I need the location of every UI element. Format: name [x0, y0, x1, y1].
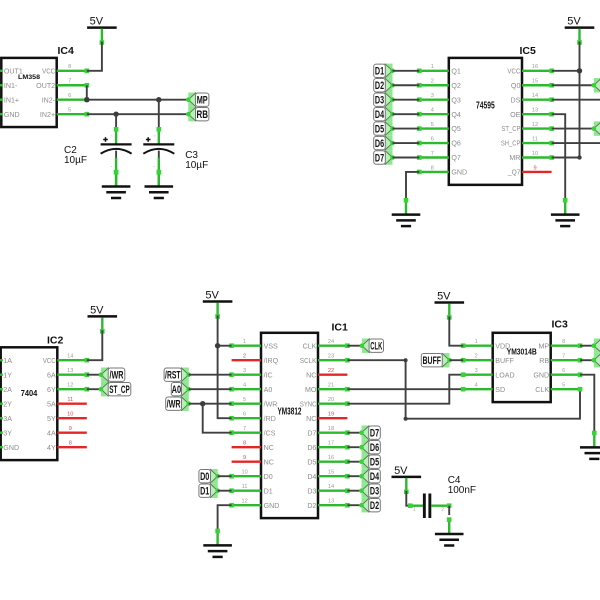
net label BUFF (BUFF near IC3) [421, 353, 452, 367]
svg-text:ST_CP: ST_CP [109, 384, 130, 396]
svg-text:D2: D2 [307, 502, 316, 510]
svg-text:5: 5 [68, 107, 71, 113]
svg-text:CLK: CLK [303, 342, 317, 350]
svg-text:13: 13 [328, 499, 334, 505]
svg-text:D6: D6 [375, 138, 384, 150]
svg-text:OUT1: OUT1 [4, 67, 23, 75]
svg-text:NC: NC [264, 458, 274, 466]
wire IC5 DS pin14 off right edge [552, 99, 600, 101]
svg-text:6: 6 [562, 368, 565, 374]
svg-text:2: 2 [243, 354, 246, 360]
wire C4 pin2 to ground [448, 506, 450, 515]
svg-text:-: - [111, 163, 113, 169]
op-amp IC4 LM358 [0, 45, 89, 127]
svg-text:7: 7 [68, 79, 71, 85]
svg-text:MR: MR [509, 154, 520, 162]
svg-text:MP: MP [197, 95, 208, 107]
wire 5V to IC3 VDD pin1 [449, 316, 463, 345]
svg-text:D2: D2 [370, 500, 379, 512]
wire D0 label to IC1 pin10 [218, 475, 232, 477]
net label D7 (D7 near IC5) [374, 150, 395, 164]
svg-text:18: 18 [328, 426, 334, 432]
ground symbol (IC5 OE) [551, 198, 580, 226]
svg-text:13: 13 [532, 107, 538, 113]
svg-text:5V: 5V [90, 16, 104, 28]
svg-text:D6: D6 [370, 442, 379, 454]
svg-text:IC1: IC1 [332, 322, 349, 334]
svg-text:OUT2: OUT2 [36, 82, 55, 90]
svg-text:Q6: Q6 [451, 140, 461, 148]
svg-text:11: 11 [532, 136, 538, 142]
net label RB (RB near IC4) [186, 107, 209, 121]
net label (cut label at IC3 RB) [592, 353, 600, 367]
svg-text:Q1: Q1 [451, 67, 461, 75]
wire IC2 6A pin13 to /WR label [87, 374, 101, 376]
wire IC1 D2 pin13 to label [347, 504, 361, 506]
capacitor C3 10uF electrolytic [143, 100, 174, 187]
svg-text:IC4: IC4 [58, 45, 75, 57]
power +5V supply (C4) [392, 465, 422, 494]
net label D7 (D7 near IC1) [359, 426, 380, 440]
svg-text:1Y: 1Y [3, 371, 12, 379]
svg-text:Q0: Q0 [511, 82, 521, 90]
svg-text:1: 1 [243, 339, 246, 345]
wire D6 label to IC5 pin 6 [393, 142, 420, 144]
svg-text:IN2-: IN2- [42, 96, 56, 104]
wire IC3 RB pin7 to edge label [580, 359, 594, 361]
net label D1 (D1 near IC5) [374, 64, 395, 78]
svg-text:5V: 5V [205, 290, 219, 302]
svg-text:D5: D5 [370, 457, 379, 469]
ground symbol (IC5 GND) [392, 198, 421, 226]
svg-text:7: 7 [431, 151, 434, 157]
svg-text:4: 4 [431, 107, 434, 113]
svg-text:5V: 5V [90, 305, 104, 317]
svg-text:16: 16 [328, 455, 334, 461]
svg-text:4: 4 [243, 383, 246, 389]
svg-text:MP: MP [538, 342, 549, 350]
wire IC1 D6 pin17 to label [347, 446, 361, 448]
net label D3 (D3 near IC5) [374, 93, 395, 107]
svg-text:5Y: 5Y [47, 415, 56, 423]
svg-text:IN2+: IN2+ [40, 111, 55, 119]
svg-text:/IRQ: /IRQ [264, 357, 279, 365]
svg-text:8: 8 [68, 64, 71, 70]
svg-text:10: 10 [241, 470, 247, 476]
net label D6 (D6 near IC5) [374, 136, 395, 150]
svg-text:14: 14 [532, 93, 538, 99]
svg-text:GND: GND [4, 111, 20, 119]
svg-text:9: 9 [533, 165, 536, 171]
wire IC1 D3 pin14 to label [347, 490, 361, 492]
svg-text:D4: D4 [375, 109, 385, 121]
svg-text:SCLK: SCLK [300, 357, 317, 365]
svg-text:GND: GND [451, 169, 467, 177]
junction /WR branch [200, 401, 205, 406]
shift register IC5 74595 [417, 45, 554, 185]
power +5V supply (IC3 VDD) [435, 291, 465, 320]
svg-text:D3: D3 [370, 486, 379, 498]
svg-text:5A: 5A [47, 400, 56, 408]
svg-text:2: 2 [475, 354, 478, 360]
svg-text:12: 12 [241, 499, 247, 505]
node SCLK corner [404, 417, 408, 421]
wire IC1 VSS pin1 to 5V rail [218, 345, 232, 347]
svg-text:/WR: /WR [264, 400, 278, 408]
junction IC1 VSS on 5V rail [215, 343, 220, 348]
svg-text:5V: 5V [437, 291, 451, 303]
wire BUFF label to IC3 pin2 [450, 359, 464, 361]
power +5V supply (IC4 VCC) [87, 16, 117, 45]
ground symbol (C2) [102, 170, 131, 198]
svg-text:VSS: VSS [264, 342, 278, 350]
net label A0 (A0 near IC1) [171, 382, 191, 396]
ground symbol (C4 GND) [435, 517, 464, 545]
svg-text:19: 19 [328, 412, 334, 418]
svg-text:/WR: /WR [167, 399, 181, 411]
net label D5 (D5 near IC1) [359, 455, 380, 469]
svg-text:D6: D6 [307, 444, 316, 452]
ground symbol (C3) [145, 170, 174, 198]
svg-text:~: ~ [153, 134, 156, 139]
svg-text:IN1+: IN1+ [4, 96, 19, 104]
svg-text:21: 21 [328, 383, 334, 389]
node SCLK bend [404, 358, 408, 362]
wire /RST label to IC1 /IC pin3 [189, 374, 232, 376]
wire IC5 VCC pin16 to 5V rail [552, 70, 580, 72]
svg-text:13: 13 [67, 368, 73, 374]
svg-text:15: 15 [532, 79, 538, 85]
svg-text:YM3014B: YM3014B [507, 347, 537, 356]
svg-text:BUFF: BUFF [423, 355, 442, 367]
svg-text:IC2: IC2 [47, 335, 64, 347]
svg-text:D7: D7 [307, 429, 316, 437]
net label D4 (D4 near IC1) [359, 469, 380, 483]
svg-text:16: 16 [532, 64, 538, 70]
wire IC5 ST_CP pin12 to edge label [552, 128, 594, 130]
svg-text:23: 23 [328, 354, 334, 360]
svg-text:D7: D7 [370, 428, 379, 440]
wire IC5 GND pin8 to ground [406, 172, 419, 200]
svg-text:3Y: 3Y [3, 429, 12, 437]
svg-text:MO: MO [305, 386, 317, 394]
wire IC1 GND pin12 to ground [218, 505, 232, 531]
wire IC1 D5 pin16 to label [347, 461, 361, 463]
wire IC2 6Y pin12 to ST_CP label [87, 388, 101, 390]
wire D1 label to IC5 pin 1 [393, 70, 420, 72]
wire 5V to C4 pin1 [406, 491, 410, 506]
svg-text:IN1-: IN1- [4, 82, 18, 90]
junction IC5 VCC on 5V rail [577, 68, 582, 73]
svg-text:D1: D1 [264, 487, 273, 495]
svg-text:10: 10 [67, 412, 73, 418]
label C2 value [64, 145, 87, 166]
node MO-SD joint [461, 387, 465, 391]
svg-text:8: 8 [69, 441, 72, 447]
wire IC5 MR pin10 to 5V rail [552, 157, 580, 159]
power +5V supply (IC2 VCC) [88, 305, 118, 334]
svg-text:24: 24 [328, 339, 334, 345]
svg-text:NC: NC [306, 371, 316, 379]
svg-text:3: 3 [243, 368, 246, 374]
svg-text:6: 6 [431, 136, 434, 142]
wire D2 label to IC5 pin 2 [393, 84, 420, 86]
svg-text:6: 6 [243, 412, 246, 418]
net label D4 (D4 near IC5) [374, 107, 395, 121]
net label /WR (/WR near IC2) [99, 368, 125, 382]
svg-text:9: 9 [69, 426, 72, 432]
svg-text:D7: D7 [375, 152, 384, 164]
svg-text:/RST: /RST [165, 370, 181, 382]
svg-text:SH_CP: SH_CP [501, 140, 521, 148]
capacitor C4 100nF [408, 494, 452, 519]
svg-text:7404: 7404 [21, 388, 38, 398]
svg-text:A0: A0 [172, 384, 182, 396]
svg-text:2: 2 [431, 79, 434, 85]
svg-text:2A: 2A [3, 386, 12, 394]
svg-text:5V: 5V [394, 465, 408, 477]
net label D5 (D5 near IC5) [374, 121, 395, 135]
svg-text:LOAD: LOAD [495, 371, 514, 379]
svg-text:5: 5 [562, 383, 565, 389]
svg-text:D0: D0 [264, 473, 273, 481]
svg-text:A0: A0 [264, 386, 273, 394]
svg-text:7: 7 [562, 354, 565, 360]
svg-text:D1: D1 [375, 66, 384, 78]
wire D7 label to IC5 pin 7 [393, 157, 420, 159]
svg-text:VCC: VCC [42, 67, 55, 75]
svg-text:BUFF: BUFF [495, 357, 514, 365]
svg-text:D1: D1 [200, 486, 209, 498]
svg-text:11: 11 [67, 397, 73, 403]
wire IC3 GND pin6 to ground [580, 375, 594, 433]
svg-text:/CS: /CS [264, 429, 276, 437]
net label ST_CP (ST_CP near IC2) [99, 382, 131, 396]
net label CLK (CLK near IC1) [360, 339, 384, 353]
svg-text:1: 1 [475, 339, 478, 345]
svg-text:D3: D3 [307, 487, 316, 495]
svg-text:100nF: 100nF [448, 485, 476, 496]
svg-text:15: 15 [328, 470, 334, 476]
net label (cut label at IC3 MP) [592, 339, 600, 353]
svg-text:3: 3 [431, 93, 434, 99]
svg-text:D0: D0 [200, 471, 209, 483]
svg-text:6A: 6A [47, 371, 56, 379]
label C4 value [448, 475, 476, 496]
junction C3 on MP net [156, 97, 161, 102]
svg-text:17: 17 [328, 441, 334, 447]
junction IC4 pin6/pin7 [84, 97, 89, 102]
net label D1 (D1 near IC1) [199, 484, 220, 498]
svg-text:IC3: IC3 [552, 319, 569, 331]
svg-text:/WR: /WR [110, 370, 124, 382]
svg-text:11: 11 [242, 484, 248, 490]
wire /WR label to IC1 /WR pin5 [189, 403, 232, 405]
svg-text:NC: NC [264, 444, 274, 452]
svg-text:CLK: CLK [535, 386, 549, 394]
wire IC1 D7 pin18 to label [347, 432, 361, 434]
wire IC1 MO pin21 to IC3 SD pin4 [347, 388, 463, 390]
svg-text:D5: D5 [307, 458, 316, 466]
svg-text:NC: NC [306, 415, 316, 423]
net label D2 (D2 near IC1) [359, 498, 380, 512]
svg-text:8: 8 [562, 339, 565, 345]
svg-text:Q2: Q2 [451, 82, 461, 90]
svg-text:4: 4 [475, 383, 478, 389]
svg-text:VDD: VDD [495, 342, 510, 350]
wire IC5 Q0 pin15 to edge label [552, 84, 594, 86]
svg-text:10µF: 10µF [64, 155, 87, 166]
wire IC1 SYNC pin20 to IC3 LOAD pin3 [347, 375, 463, 404]
svg-text:GND: GND [264, 502, 280, 510]
wire IC4 VCC pin8 to 5V [87, 42, 102, 71]
svg-text:5: 5 [243, 397, 246, 403]
svg-text:~: ~ [110, 134, 113, 139]
DAC IC3 YM3014B [461, 319, 582, 402]
wire IC1 SCLK pin23 to IC3 CLK pin5 [347, 360, 580, 419]
svg-text:-: - [153, 163, 155, 169]
svg-text:2Y: 2Y [3, 400, 12, 408]
svg-text:SD: SD [495, 386, 505, 394]
svg-text:9: 9 [243, 455, 246, 461]
wire IC1 D4 pin15 to label [347, 475, 361, 477]
wire 5V rail down left of IC1 to /RD [218, 315, 232, 418]
label C3 value [185, 150, 208, 171]
net label D0 (D0 near IC1) [199, 469, 220, 483]
power +5V supply (IC1 VSS) [203, 290, 233, 319]
wire A0 label to IC1 A0 pin4 [189, 388, 232, 390]
sound chip IC1 YM3812 [229, 322, 349, 519]
svg-text:RB: RB [539, 357, 549, 365]
net label MP (MP near IC4) [186, 93, 209, 107]
svg-text:14: 14 [67, 354, 73, 360]
wire IC2 VCC pin14 to 5V [87, 330, 103, 360]
net label (cut label at ST_CP) [592, 121, 600, 135]
svg-text:20: 20 [328, 397, 334, 403]
svg-text:D5: D5 [375, 124, 384, 136]
svg-text:1: 1 [431, 64, 434, 70]
wire IC3 MP pin8 to edge label [580, 345, 594, 347]
svg-text:YM3812: YM3812 [278, 405, 302, 417]
net label /WR (/WR near IC1) [166, 397, 191, 411]
svg-text:/RD: /RD [264, 415, 276, 423]
hex inverter IC2 7404 [0, 335, 89, 460]
svg-text:Q5: Q5 [451, 125, 461, 133]
svg-text:1: 1 [413, 507, 416, 513]
wire D5 label to IC5 pin 5 [393, 128, 420, 130]
svg-text:ST_CP: ST_CP [501, 125, 520, 133]
net label D6 (D6 near IC1) [359, 440, 380, 454]
node MR corner [577, 155, 581, 159]
svg-text:6Y: 6Y [47, 386, 56, 394]
svg-text:/IC: /IC [264, 371, 273, 379]
svg-text:10µF: 10µF [185, 160, 208, 171]
svg-text:4A: 4A [47, 429, 56, 437]
svg-text:8: 8 [431, 165, 434, 171]
svg-text:GND: GND [533, 371, 549, 379]
net label D3 (D3 near IC1) [359, 484, 380, 498]
capacitor C2 10uF electrolytic [101, 114, 132, 186]
svg-text:3A: 3A [3, 415, 12, 423]
svg-text:12: 12 [532, 122, 538, 128]
net label (cut label at Q0) [592, 78, 600, 92]
svg-text:7: 7 [243, 426, 246, 432]
wire D4 label to IC5 pin 4 [393, 113, 420, 115]
svg-text:RB: RB [196, 109, 208, 121]
net label /RST (/RST near IC1) [164, 368, 191, 382]
wire /WR branch down to /CS pin7 [203, 404, 232, 433]
svg-text:D3: D3 [375, 95, 384, 107]
svg-text:DS: DS [511, 96, 521, 104]
svg-text:CLK: CLK [370, 341, 382, 353]
junction C2 on RB net [113, 111, 118, 116]
svg-text:2: 2 [441, 507, 444, 513]
svg-text:SYNC: SYNC [300, 400, 317, 408]
svg-text:Q3: Q3 [451, 96, 461, 104]
svg-text:5: 5 [431, 122, 434, 128]
svg-text:_Q7: _Q7 [507, 169, 520, 177]
wire IC4 OUT2 pin7 feedback to IN2- [86, 85, 88, 99]
wire IC1 CLK pin24 to CLK label [347, 345, 362, 347]
svg-text:22: 22 [328, 368, 334, 374]
svg-text:OE: OE [510, 111, 521, 119]
svg-text:D4: D4 [307, 473, 316, 481]
svg-text:5V: 5V [567, 16, 581, 28]
wire node IN2+ (RB net) from IC4 to label [87, 113, 189, 115]
ground symbol (IC1 GND) [203, 529, 232, 557]
svg-text:3: 3 [475, 368, 478, 374]
wire 5V rail down to IC5 MR [579, 42, 581, 158]
svg-text:Q7: Q7 [451, 154, 461, 162]
svg-text:8: 8 [243, 441, 246, 447]
svg-text:GND: GND [3, 444, 19, 452]
svg-text:1A: 1A [3, 357, 12, 365]
svg-text:4Y: 4Y [47, 444, 56, 452]
wire D3 label to IC5 pin 3 [393, 99, 420, 101]
svg-text:D2: D2 [375, 80, 384, 92]
svg-text:VCC: VCC [43, 357, 56, 365]
svg-text:74595: 74595 [476, 101, 495, 112]
svg-text:12: 12 [67, 383, 73, 389]
svg-text:IC5: IC5 [520, 45, 537, 57]
svg-text:10: 10 [532, 151, 538, 157]
net label D2 (D2 near IC5) [374, 78, 395, 92]
svg-text:D4: D4 [370, 471, 380, 483]
wire node IN2- (MP net) from IC4 to label [87, 99, 189, 101]
wire IC5 OE pin13 to ground [552, 114, 566, 200]
wire IC5 SH_CP pin11 off right edge [552, 142, 600, 144]
svg-text:Q4: Q4 [451, 111, 461, 119]
svg-text:14: 14 [328, 484, 334, 490]
ground symbol (IC3 GND) [580, 431, 600, 459]
svg-text:6: 6 [68, 93, 71, 99]
wire D1 label to IC1 pin11 [218, 490, 232, 492]
svg-text:VCC: VCC [507, 67, 520, 75]
power +5V supply (IC5 VCC) [565, 16, 595, 45]
